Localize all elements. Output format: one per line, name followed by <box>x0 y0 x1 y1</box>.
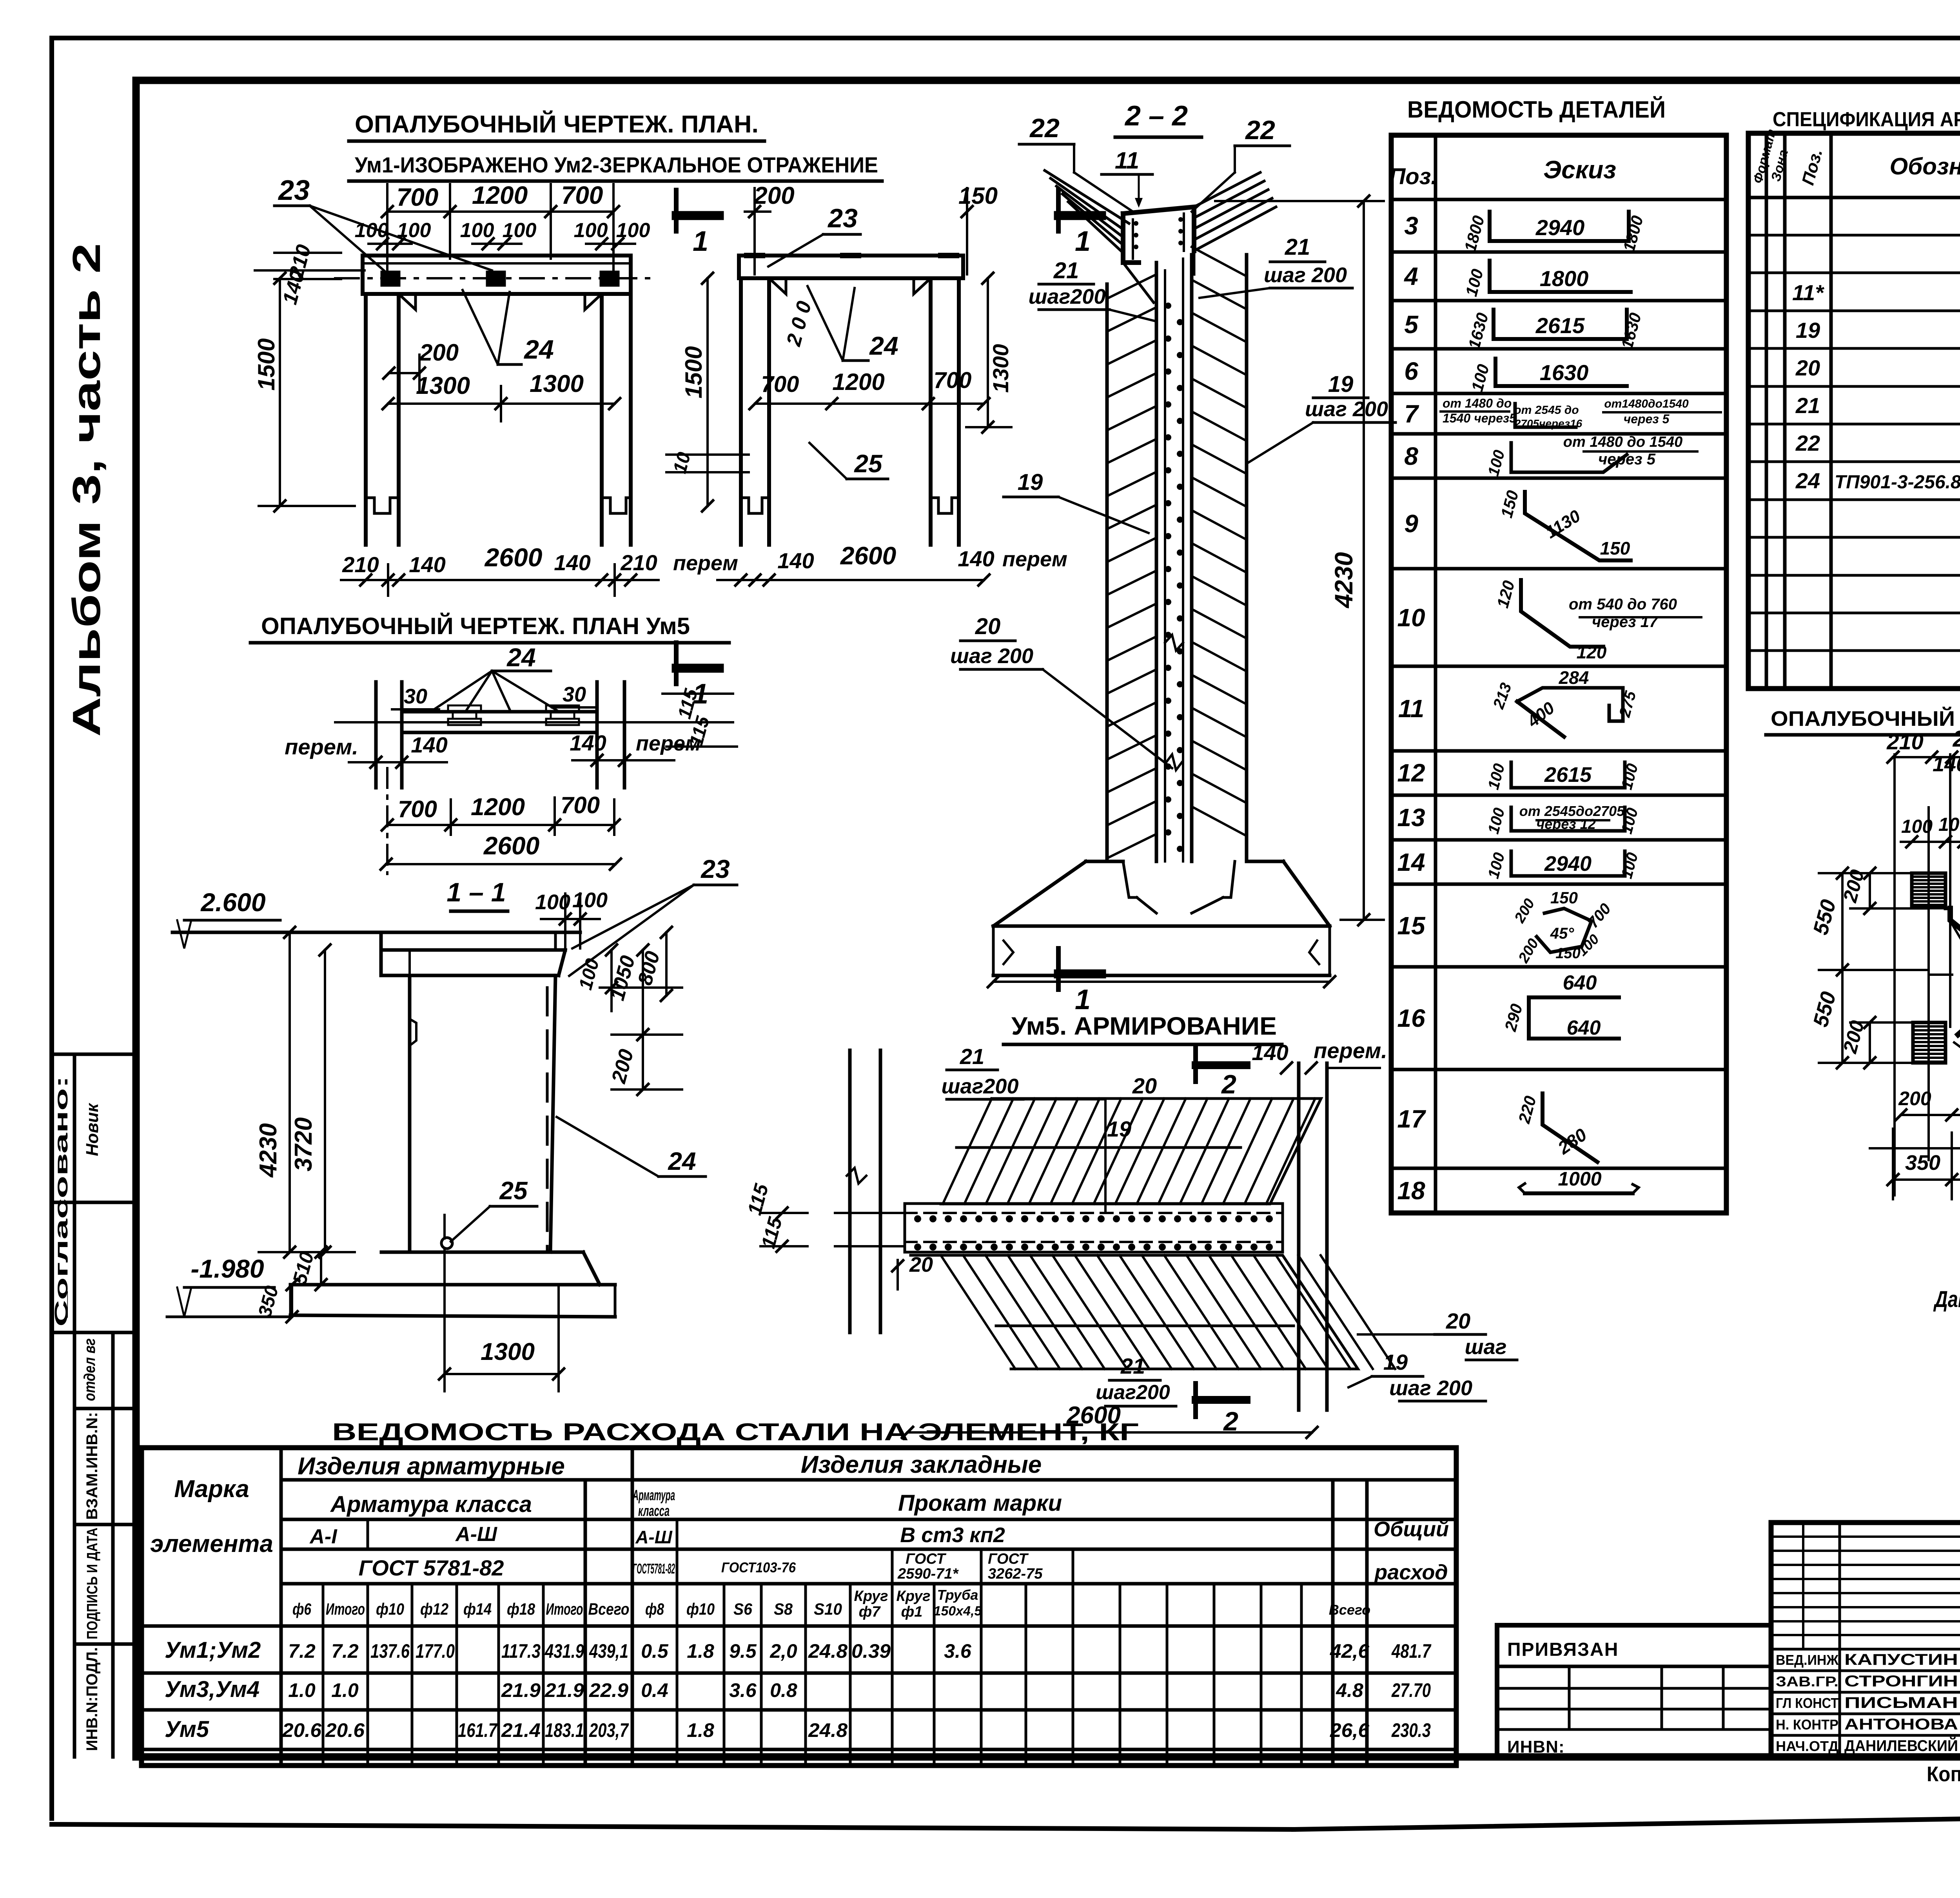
svg-text:11: 11 <box>1398 694 1424 723</box>
svg-text:1300: 1300 <box>988 344 1013 393</box>
svg-text:2600: 2600 <box>483 832 539 860</box>
svg-text:Арматура класса: Арматура класса <box>330 1492 532 1517</box>
svg-text:23: 23 <box>827 203 858 233</box>
svg-text:Обозначение: Обозначение <box>1889 153 1960 179</box>
svg-text:25: 25 <box>499 1177 528 1205</box>
svg-text:200: 200 <box>1898 1088 1931 1109</box>
svg-text:210: 210 <box>1886 729 1923 754</box>
svg-text:4230: 4230 <box>1330 552 1358 609</box>
plan2 left leg <box>739 278 743 545</box>
svg-text:Изделия закладные: Изделия закладные <box>801 1451 1042 1478</box>
svg-text:200: 200 <box>419 339 459 366</box>
svg-text:2,0: 2,0 <box>769 1640 797 1662</box>
cap to column transition <box>1123 263 1154 303</box>
svg-text:2.600: 2.600 <box>200 888 265 917</box>
svg-text:ф14: ф14 <box>463 1600 492 1618</box>
svg-text:150: 150 <box>958 183 998 209</box>
svg-text:4230: 4230 <box>255 1123 282 1178</box>
armir upper band inner edge (pos.19) <box>956 1146 1241 1149</box>
svg-text:21: 21 <box>1053 258 1079 283</box>
svg-text:3.6: 3.6 <box>944 1640 972 1662</box>
um3 vertical construction lines <box>1893 754 1896 1195</box>
svg-text:42,6: 42,6 <box>1330 1640 1370 1662</box>
elevation slab corner detail right <box>554 932 557 950</box>
title block outer <box>1771 1523 1960 1757</box>
svg-text:Копировал· Каршунова: Копировал· Каршунова <box>1927 1762 1960 1786</box>
svg-text:1500: 1500 <box>681 346 707 398</box>
svg-text:24: 24 <box>668 1147 696 1175</box>
svg-text:700: 700 <box>761 372 799 397</box>
elevation wall notch <box>410 1019 416 1046</box>
svg-text:1500: 1500 <box>253 338 279 390</box>
svg-text:7: 7 <box>1404 400 1419 428</box>
armir bottom section mark 2 <box>1193 1383 1198 1417</box>
svg-text:НАЧ.ОТД: НАЧ.ОТД <box>1776 1738 1838 1754</box>
detail sketch pos.13 <box>1511 807 1625 831</box>
svg-text:284: 284 <box>1559 667 1589 688</box>
svg-text:24: 24 <box>523 335 554 364</box>
svg-text:Всего: Всего <box>1329 1602 1370 1618</box>
steel table frame <box>142 1448 1456 1766</box>
svg-text:26,6: 26,6 <box>1330 1719 1370 1741</box>
svg-text:3.6: 3.6 <box>729 1679 757 1701</box>
svg-text:11: 11 <box>1115 147 1139 174</box>
svg-text:Изделия арматурные: Изделия арматурные <box>298 1453 565 1480</box>
svg-text:ВЗАМ.ИНВ.N:: ВЗАМ.ИНВ.N: <box>83 1412 101 1520</box>
detail sketch pos.10 <box>1521 580 1603 647</box>
svg-text:24.8: 24.8 <box>808 1640 848 1662</box>
svg-text:1200: 1200 <box>472 181 528 209</box>
svg-text:24: 24 <box>506 643 535 672</box>
svg-text:А-Ш: А-Ш <box>635 1527 673 1547</box>
svg-text:23: 23 <box>700 854 730 883</box>
svg-text:1630: 1630 <box>1540 360 1589 385</box>
svg-text:20: 20 <box>1132 1073 1157 1098</box>
svg-text:30: 30 <box>404 685 427 708</box>
section mark 1b bottom <box>1056 948 1061 990</box>
plan2 right leg <box>929 278 933 545</box>
svg-text:21: 21 <box>1795 393 1820 418</box>
plan2 beam outline <box>739 256 963 278</box>
svg-text:2940: 2940 <box>1535 215 1585 240</box>
svg-text:Труба: Труба <box>937 1587 978 1603</box>
svg-text:1: 1 <box>1075 226 1091 257</box>
foundation trapezoid <box>993 861 1086 926</box>
svg-text:ф7: ф7 <box>859 1604 881 1620</box>
elevation foundation <box>381 1251 583 1254</box>
svg-text:0.5: 0.5 <box>641 1640 669 1662</box>
svg-text:1540 через5: 1540 через5 <box>1443 411 1517 425</box>
svg-text:19: 19 <box>1018 470 1043 495</box>
svg-text:от 1480 до: от 1480 до <box>1443 396 1512 410</box>
svg-text:Прокат марки: Прокат марки <box>898 1490 1062 1516</box>
svg-text:100: 100 <box>355 219 389 242</box>
um3 upper embedded plate <box>1912 873 1945 905</box>
svg-text:ф10: ф10 <box>376 1600 404 1618</box>
svg-text:Итого: Итого <box>326 1600 365 1618</box>
svg-text:140: 140 <box>777 548 814 573</box>
svg-text:700: 700 <box>934 368 972 393</box>
svg-text:1200: 1200 <box>471 794 525 821</box>
svg-text:Поз.: Поз. <box>1389 164 1437 189</box>
svg-text:7.2: 7.2 <box>288 1640 316 1662</box>
svg-text:16: 16 <box>1397 1004 1425 1032</box>
cap right console slope lines <box>1194 172 1260 207</box>
svg-text:Ум1;Ум2: Ум1;Ум2 <box>165 1637 261 1663</box>
svg-text:230.3: 230.3 <box>1391 1719 1431 1741</box>
svg-text:1: 1 <box>1075 984 1091 1015</box>
svg-text:Ум5. АРМИРОВАНИЕ: Ум5. АРМИРОВАНИЕ <box>1011 1012 1277 1040</box>
svg-text:200: 200 <box>1953 726 1960 752</box>
detail sketch pos.18 <box>1525 1191 1633 1195</box>
svg-text:перем.: перем. <box>285 734 358 759</box>
column right hatched strip <box>1245 255 1249 861</box>
svg-text:0.39: 0.39 <box>851 1640 891 1662</box>
svg-text:перем: перем <box>673 551 738 575</box>
plan2 beam plate marks <box>747 253 762 258</box>
svg-text:1200: 1200 <box>832 369 884 395</box>
svg-text:Круг: Круг <box>854 1588 888 1604</box>
svg-text:от 1480 до 1540: от 1480 до 1540 <box>1563 434 1682 450</box>
svg-text:2: 2 <box>1221 1070 1236 1099</box>
svg-text:21: 21 <box>1120 1354 1145 1378</box>
svg-text:Новик: Новик <box>83 1102 102 1156</box>
svg-text:отдел вг: отдел вг <box>81 1338 98 1401</box>
svg-text:100: 100 <box>503 219 537 242</box>
svg-text:2 – 2: 2 – 2 <box>1124 100 1188 132</box>
svg-text:S8: S8 <box>774 1600 793 1618</box>
svg-text:через 12: через 12 <box>1536 816 1595 832</box>
svg-text:ГЛ КОНСТ: ГЛ КОНСТ <box>1776 1695 1838 1711</box>
svg-text:17: 17 <box>1397 1105 1426 1133</box>
svg-text:19: 19 <box>1107 1117 1131 1141</box>
svg-text:шаг200: шаг200 <box>1096 1381 1170 1404</box>
svg-text:шаг 200: шаг 200 <box>1264 263 1347 287</box>
column rebar dots <box>1165 303 1171 309</box>
svg-text:350: 350 <box>1905 1151 1940 1175</box>
svg-text:Общий: Общий <box>1374 1517 1449 1541</box>
armir right wall verticals <box>1297 1063 1301 1410</box>
svg-text:203,7: 203,7 <box>589 1719 629 1741</box>
svg-text:ИНВN:: ИНВN: <box>1507 1737 1565 1757</box>
svg-text:1300: 1300 <box>481 1338 535 1365</box>
elevation wall <box>408 975 412 1252</box>
svg-text:от 540 до 760: от 540 до 760 <box>1569 596 1677 613</box>
svg-text:15: 15 <box>1397 912 1426 940</box>
svg-text:ф1: ф1 <box>901 1604 923 1620</box>
svg-text:6: 6 <box>1404 357 1418 385</box>
column break mark <box>1165 635 1183 651</box>
svg-text:100: 100 <box>616 219 650 242</box>
svg-text:2590-71*: 2590-71* <box>897 1566 959 1582</box>
svg-text:439,1: 439,1 <box>589 1640 628 1662</box>
detail sketch pos.9 <box>1525 492 1631 560</box>
svg-text:ДАНИЛЕВСКИЙ: ДАНИЛЕВСКИЙ <box>1844 1737 1958 1755</box>
armir lower hatch band (bars pos.19) <box>911 1255 1358 1369</box>
svg-text:класса: класса <box>638 1503 670 1519</box>
svg-text:ИНВ.N:ПОДЛ.: ИНВ.N:ПОДЛ. <box>83 1647 101 1751</box>
svg-text:Арматура: Арматура <box>632 1487 675 1504</box>
svg-text:640: 640 <box>1563 972 1597 994</box>
svg-text:1 – 1: 1 – 1 <box>446 877 506 907</box>
steel table vertical lines <box>279 1448 283 1766</box>
spec table frame <box>1748 133 1960 689</box>
foundation slab <box>993 925 1330 928</box>
svg-text:шаг 200: шаг 200 <box>1305 397 1388 421</box>
svg-text:ТП901-3-256.89 - КЖИ87.0.0.0: ТП901-3-256.89 - КЖИ87.0.0.0 <box>1835 472 1960 493</box>
svg-text:23: 23 <box>278 175 310 206</box>
svg-text:100: 100 <box>460 219 494 242</box>
svg-text:ф10: ф10 <box>686 1600 715 1618</box>
svg-text:150: 150 <box>1550 888 1578 907</box>
svg-text:перем: перем <box>1002 547 1067 571</box>
svg-text:2705через16: 2705через16 <box>1514 417 1583 430</box>
svg-text:20: 20 <box>1795 355 1820 380</box>
svg-text:___: ___ <box>52 1291 69 1318</box>
svg-text:АНТОНОВА: АНТОНОВА <box>1844 1716 1958 1733</box>
column left hatched strip <box>1105 284 1109 861</box>
svg-text:Ум1-ИЗОБРАЖЕНО Ум2-ЗЕРКАЛЬНОЕ: Ум1-ИЗОБРАЖЕНО Ум2-ЗЕРКАЛЬНОЕ ОТРАЖЕНИЕ <box>355 152 878 177</box>
um3 cross outline thick <box>1950 908 1960 946</box>
plan2 inner chamfers <box>769 278 786 294</box>
svg-text:5: 5 <box>1404 310 1419 339</box>
svg-text:1.0: 1.0 <box>288 1679 316 1701</box>
plan Um1 inner chamfers <box>399 294 416 310</box>
svg-text:ф12: ф12 <box>420 1600 448 1618</box>
small plan trestle fittings <box>451 707 478 712</box>
section mark 1b top <box>1056 190 1061 231</box>
svg-text:140: 140 <box>554 550 590 575</box>
svg-text:шаг 200: шаг 200 <box>1389 1376 1472 1400</box>
svg-text:Марка: Марка <box>174 1476 249 1503</box>
svg-text:150: 150 <box>1600 538 1630 558</box>
details table frame <box>1391 135 1726 1213</box>
svg-text:ВЕДОМОСТЬ РАСХОДА СТАЛИ НА ЭЛЕ: ВЕДОМОСТЬ РАСХОДА СТАЛИ НА ЭЛЕМЕНТ, КГ <box>332 1419 1139 1446</box>
svg-text:21.9: 21.9 <box>501 1679 541 1701</box>
svg-text:20.6: 20.6 <box>282 1719 322 1741</box>
svg-text:В ст3 кп2: В ст3 кп2 <box>900 1523 1005 1547</box>
svg-text:27.70: 27.70 <box>1391 1679 1431 1701</box>
svg-text:30: 30 <box>563 683 586 706</box>
detail sketch pos.8 <box>1511 443 1627 472</box>
svg-text:Согласовано:: Согласовано: <box>51 1076 71 1327</box>
svg-text:117.3: 117.3 <box>501 1640 541 1662</box>
svg-text:1.8: 1.8 <box>687 1719 714 1741</box>
column cap detail <box>1123 214 1139 263</box>
svg-text:А-Ш: А-Ш <box>455 1523 497 1546</box>
svg-text:161.7: 161.7 <box>458 1719 498 1741</box>
svg-text:21.4: 21.4 <box>501 1719 541 1741</box>
elevation column axis dashed <box>443 1215 446 1252</box>
svg-text:140: 140 <box>1252 1040 1288 1065</box>
svg-text:700: 700 <box>561 792 600 818</box>
svg-text:1: 1 <box>693 226 708 257</box>
svg-text:137.6: 137.6 <box>370 1640 410 1662</box>
svg-text:0.4: 0.4 <box>641 1679 668 1701</box>
detail sketch pos.3 <box>1490 212 1629 241</box>
svg-text:8: 8 <box>1404 442 1418 470</box>
svg-text:19: 19 <box>1796 318 1820 343</box>
svg-text:9: 9 <box>1404 509 1418 538</box>
svg-text:Ум5: Ум5 <box>165 1717 209 1742</box>
title block signature rows <box>1771 1648 1960 1651</box>
svg-text:120: 120 <box>1577 642 1607 662</box>
armir lower band inner edge <box>996 1325 1294 1327</box>
svg-text:21: 21 <box>960 1044 984 1069</box>
svg-text:1.8: 1.8 <box>687 1640 714 1662</box>
svg-text:100: 100 <box>572 888 608 912</box>
svg-text:ВЕД.ИНЖ: ВЕД.ИНЖ <box>1776 1652 1838 1668</box>
svg-text:2940: 2940 <box>1544 852 1592 876</box>
svg-text:ВЕДОМОСТЬ ДЕТАЛЕЙ: ВЕДОМОСТЬ ДЕТАЛЕЙ <box>1407 96 1666 123</box>
svg-text:ф6: ф6 <box>292 1600 311 1618</box>
svg-text:700: 700 <box>561 181 603 209</box>
plan Um1 embedded plates pos.23 <box>382 272 399 285</box>
svg-text:ПИСЬМАН: ПИСЬМАН <box>1844 1694 1958 1711</box>
elevation top slab <box>381 948 565 952</box>
svg-text:ГОСТ 5781-82: ГОСТ 5781-82 <box>359 1555 504 1580</box>
svg-text:шаг 200: шаг 200 <box>950 644 1033 668</box>
svg-text:210: 210 <box>620 550 657 575</box>
svg-text:140: 140 <box>409 552 445 577</box>
svg-text:22: 22 <box>1029 113 1060 143</box>
svg-text:2600: 2600 <box>840 542 896 570</box>
section mark 1 bottom (right of plan Um1) <box>674 643 679 684</box>
svg-text:18: 18 <box>1397 1177 1425 1205</box>
armir slab with rebar dots <box>905 1204 1283 1252</box>
svg-text:12: 12 <box>1397 759 1425 787</box>
plan Um1 beam outline <box>363 256 631 294</box>
svg-text:1800: 1800 <box>1540 266 1589 291</box>
svg-text:шаг200: шаг200 <box>942 1075 1019 1098</box>
um3 bottom ref line <box>1870 1147 1960 1149</box>
svg-text:от 2545 до: от 2545 до <box>1514 404 1579 417</box>
svg-text:431.9: 431.9 <box>544 1640 584 1662</box>
detail sketch pos.4 <box>1490 261 1631 292</box>
svg-text:СПЕЦИФИКАЦИЯ АРМАТУРНЫХ ИЗДЕЛИ: СПЕЦИФИКАЦИЯ АРМАТУРНЫХ ИЗДЕЛИЙ МОНОЛИТН… <box>1773 108 1960 131</box>
svg-text:21.9: 21.9 <box>544 1679 584 1701</box>
foundation bottom dim <box>993 981 1330 983</box>
svg-text:22: 22 <box>1795 431 1820 455</box>
svg-text:22: 22 <box>1245 115 1275 145</box>
svg-text:А-I: А-I <box>309 1525 338 1548</box>
svg-text:3720: 3720 <box>290 1117 317 1171</box>
svg-text:100: 100 <box>1938 814 1960 835</box>
small plan left wall <box>374 682 378 788</box>
plan Um1 left leg <box>364 294 368 545</box>
svg-text:100: 100 <box>574 219 608 242</box>
margin stamp table <box>52 1053 136 1056</box>
svg-text:24: 24 <box>1795 468 1820 493</box>
svg-text:140: 140 <box>411 732 447 757</box>
svg-text:1300: 1300 <box>416 372 470 399</box>
svg-text:3: 3 <box>1404 212 1418 240</box>
svg-text:ОПАЛУБОЧНЫЙ ЧЕРТЕЖ: ОПАЛУБОЧНЫЙ ЧЕРТЕЖ <box>1771 707 1960 731</box>
svg-text:Эскиз: Эскиз <box>1543 156 1616 184</box>
svg-text:21: 21 <box>1285 234 1310 260</box>
small plan right wall <box>595 682 599 788</box>
steel table horizontal lines <box>281 1478 1456 1482</box>
Привязан stamp box <box>1497 1625 1771 1757</box>
svg-text:700: 700 <box>397 183 439 211</box>
svg-text:19: 19 <box>1328 372 1354 397</box>
detail sketch pos.14 <box>1511 851 1625 876</box>
svg-text:ф8: ф8 <box>645 1600 664 1618</box>
detail sketch pos.12 <box>1511 762 1625 788</box>
armir section mark 2 top <box>1193 1048 1198 1082</box>
small plan beam <box>402 712 597 732</box>
svg-text:140: 140 <box>570 731 606 755</box>
svg-text:ф18: ф18 <box>507 1600 535 1618</box>
svg-text:1300: 1300 <box>530 370 584 397</box>
svg-text:элемента: элемента <box>150 1530 273 1557</box>
svg-text:шаг: шаг <box>1465 1335 1507 1359</box>
svg-text:через 17: через 17 <box>1592 613 1659 631</box>
svg-text:Данный лист см. совместно с л.: Данный лист см. совместно с л. 39 <box>1933 1287 1960 1312</box>
svg-text:ПОДПИСЬ И ДАТА: ПОДПИСЬ И ДАТА <box>84 1528 101 1639</box>
svg-text:100: 100 <box>1901 816 1933 837</box>
svg-text:перем.: перем. <box>1314 1038 1387 1063</box>
armir left wall verticals <box>848 1050 852 1332</box>
svg-text:20: 20 <box>975 614 1001 639</box>
svg-text:183.1: 183.1 <box>545 1719 584 1741</box>
plan Um1 right leg <box>600 294 604 545</box>
svg-text:3262-75: 3262-75 <box>988 1566 1043 1582</box>
svg-text:210: 210 <box>342 552 379 577</box>
svg-text:13: 13 <box>1397 803 1425 832</box>
svg-text:расход: расход <box>1374 1561 1448 1584</box>
svg-text:14: 14 <box>1397 848 1425 876</box>
svg-text:2615: 2615 <box>1544 763 1592 787</box>
svg-text:ОПАЛУБОЧНЫЙ ЧЕРТЕЖ. ПЛАН.: ОПАЛУБОЧНЫЙ ЧЕРТЕЖ. ПЛАН. <box>355 111 759 138</box>
svg-text:481.7: 481.7 <box>1391 1640 1432 1662</box>
svg-text:2600: 2600 <box>484 543 543 572</box>
svg-text:9.5: 9.5 <box>729 1640 757 1662</box>
svg-text:19: 19 <box>1383 1350 1408 1374</box>
svg-text:0.8: 0.8 <box>770 1679 797 1701</box>
detail sketch pos.17 <box>1543 1093 1597 1162</box>
svg-text:150х4,5: 150х4,5 <box>934 1604 982 1619</box>
svg-text:11*: 11* <box>1792 280 1824 305</box>
svg-text:20: 20 <box>1446 1309 1470 1333</box>
cap left console slope lines <box>1051 178 1123 229</box>
svg-text:Круг: Круг <box>896 1588 930 1604</box>
svg-text:ГОСТ: ГОСТ <box>988 1551 1029 1567</box>
svg-text:2615: 2615 <box>1535 313 1585 338</box>
svg-text:ЗАВ.ГР.: ЗАВ.ГР. <box>1776 1673 1838 1690</box>
armir upper hatch band (bars pos.20) <box>941 1099 1321 1204</box>
elevation top line <box>172 931 580 934</box>
detail sketch pos.5 <box>1494 310 1627 339</box>
svg-text:Итого: Итого <box>546 1600 583 1618</box>
column core verticals <box>1155 263 1158 861</box>
svg-text:СТРОНГИН: СТРОНГИН <box>1844 1673 1958 1690</box>
section mark 1 top (right of plan Um1) <box>674 190 679 231</box>
svg-text:45°: 45° <box>1550 925 1574 942</box>
svg-text:177.0: 177.0 <box>416 1640 455 1662</box>
svg-text:КАПУСТИН: КАПУСТИН <box>1844 1651 1958 1668</box>
svg-text:1.0: 1.0 <box>331 1679 359 1701</box>
svg-text:от1480до1540: от1480до1540 <box>1604 397 1689 410</box>
svg-text:через 5: через 5 <box>1598 451 1656 468</box>
svg-text:20.6: 20.6 <box>325 1719 365 1741</box>
svg-text:1000: 1000 <box>1558 1168 1601 1190</box>
svg-text:через 5: через 5 <box>1624 412 1670 426</box>
svg-text:4.8: 4.8 <box>1336 1679 1363 1701</box>
svg-text:7.2: 7.2 <box>331 1640 359 1662</box>
svg-text:ОПАЛУБОЧНЫЙ ЧЕРТЕЖ. ПЛАН Ум5: ОПАЛУБОЧНЫЙ ЧЕРТЕЖ. ПЛАН Ум5 <box>261 613 690 639</box>
svg-text:ГОСТ: ГОСТ <box>906 1551 946 1567</box>
